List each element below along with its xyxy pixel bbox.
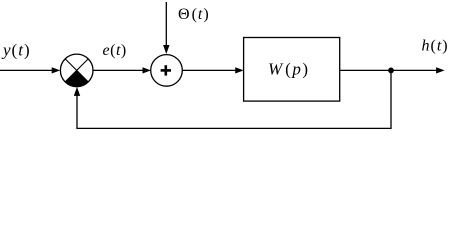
wire input Theta(t): [163, 2, 169, 54]
summing junction S2 (adder with plus): [151, 55, 183, 87]
block W(p): [244, 38, 340, 102]
summing junction S1 (comparator with X): [60, 54, 93, 87]
node junction dot: [388, 68, 394, 74]
wire S2 to block W: [182, 67, 243, 73]
wire S1 to S2: [93, 67, 151, 73]
wire input y(t): [0, 67, 60, 73]
svg-text:Θ(t): Θ(t): [178, 6, 209, 23]
wire output to h(t): [340, 67, 445, 73]
svg-text:y(t): y(t): [1, 41, 30, 60]
svg-text:W(p): W(p): [268, 60, 308, 79]
svg-text:e(t): e(t): [103, 42, 127, 59]
wire feedback loop: [74, 70, 391, 128]
svg-text:h(t): h(t): [422, 38, 448, 55]
